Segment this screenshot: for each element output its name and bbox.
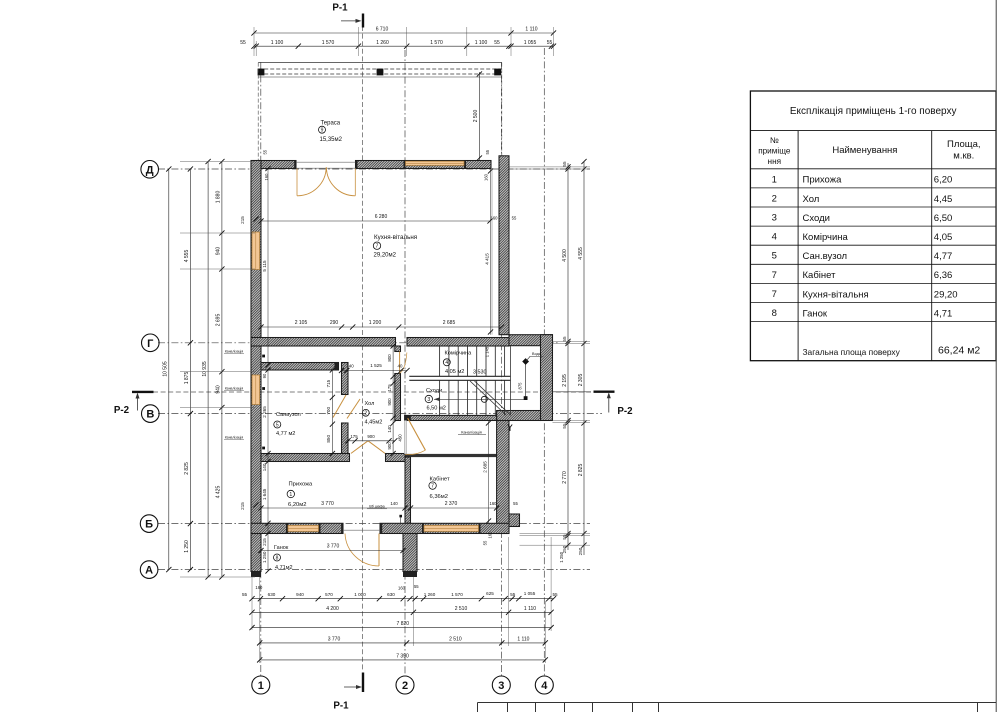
svg-text:1 250: 1 250 <box>559 551 564 563</box>
svg-text:160: 160 <box>484 173 489 181</box>
south wall window jambs <box>286 523 288 533</box>
svg-text:Вб.шафа: Вб.шафа <box>369 505 384 509</box>
svg-text:140: 140 <box>387 425 392 433</box>
svg-text:Хол: Хол <box>803 194 820 205</box>
svg-text:Каналізація: Каналізація <box>225 436 243 440</box>
svg-text:175: 175 <box>387 384 392 392</box>
corridor vertical chain <box>392 346 394 454</box>
svg-text:2 510: 2 510 <box>455 606 468 612</box>
bathroom door leaves <box>333 395 346 418</box>
west wall window 2 <box>252 375 260 405</box>
grid axis row V (y=413.6) <box>158 413 602 415</box>
svg-text:Б: Б <box>145 519 153 531</box>
svg-text:1 880: 1 880 <box>216 191 222 204</box>
svg-text:4 200: 4 200 <box>326 606 339 612</box>
svg-text:6,50 м2: 6,50 м2 <box>427 406 446 412</box>
svg-text:940: 940 <box>296 592 304 597</box>
kitchen lower dimension row <box>261 326 502 328</box>
section marker P-2 left <box>132 391 154 393</box>
left inner dims lower <box>267 370 269 571</box>
svg-text:2 770: 2 770 <box>562 471 568 484</box>
grid axis row D (y=169) <box>158 168 590 170</box>
bottom chain 7820 <box>252 627 551 629</box>
svg-text:175: 175 <box>350 434 358 439</box>
svg-text:570: 570 <box>325 592 333 597</box>
bathroom interior vertical chain <box>331 370 333 454</box>
right chain inner <box>567 163 569 550</box>
cabinet north thin wall <box>405 454 497 457</box>
svg-text:4,77: 4,77 <box>934 251 953 262</box>
column bubble 1 <box>252 676 270 694</box>
svg-text:6 710: 6 710 <box>376 27 389 33</box>
porch west wall end cap <box>251 572 261 578</box>
south wall window 2 <box>424 525 479 531</box>
svg-text:1 200: 1 200 <box>369 320 382 326</box>
svg-text:1: 1 <box>258 680 264 692</box>
svg-text:66,24 м2: 66,24 м2 <box>938 345 980 357</box>
section marker P-1 top <box>362 14 364 28</box>
svg-text:1 100: 1 100 <box>271 40 284 46</box>
corridor west wall upper <box>395 346 401 352</box>
terrace right dashed edge <box>501 63 503 161</box>
north wall window jamb caps <box>404 161 406 169</box>
svg-text:55: 55 <box>510 592 516 597</box>
cabinet east wall pilaster <box>509 514 520 527</box>
svg-text:940: 940 <box>216 385 222 394</box>
svg-text:Каналізація: Каналізація <box>225 350 243 354</box>
svg-text:2: 2 <box>402 680 408 692</box>
row bubble D <box>141 161 159 179</box>
svg-text:Сходи: Сходи <box>426 388 442 394</box>
bottom chain 7390 <box>260 659 546 661</box>
svg-text:4 415: 4 415 <box>484 253 489 265</box>
grid axis column 3 <box>500 62 502 676</box>
svg-text:Прихожа: Прихожа <box>803 175 843 186</box>
stair bay south wall <box>497 411 541 421</box>
left chain detailed <box>221 162 223 578</box>
cabinet east interior dim 2685 <box>488 421 490 524</box>
svg-text:Каналізація: Каналізація <box>225 387 243 391</box>
svg-text:625: 625 <box>486 591 494 596</box>
svg-text:3 770: 3 770 <box>321 501 334 507</box>
kitchen east interior dim 4415 <box>490 169 492 335</box>
grid axis column 4 <box>543 48 545 676</box>
svg-text:3 770: 3 770 <box>327 544 340 550</box>
svg-text:2 695: 2 695 <box>216 314 222 327</box>
row bubble A <box>140 561 158 579</box>
svg-text:450: 450 <box>398 434 403 442</box>
svg-text:7: 7 <box>772 270 777 281</box>
explication table outer border <box>750 91 996 361</box>
cabinet east wall <box>497 421 509 534</box>
svg-text:900: 900 <box>387 398 392 406</box>
svg-text:2 105: 2 105 <box>295 320 308 326</box>
hall south wall west <box>261 454 350 462</box>
svg-text:8: 8 <box>276 555 279 561</box>
svg-text:1: 1 <box>772 174 777 185</box>
svg-text:1 570: 1 570 <box>451 592 463 597</box>
north wall segment east <box>356 161 492 169</box>
stair break line <box>470 381 506 415</box>
svg-text:Кухня-вітальня: Кухня-вітальня <box>374 234 417 241</box>
svg-text:Р-2: Р-2 <box>617 406 633 417</box>
stair treads lower flight <box>439 380 441 415</box>
svg-text:4: 4 <box>445 360 448 366</box>
svg-text:м.кв.: м.кв. <box>953 151 974 162</box>
right chain outer <box>583 162 585 556</box>
svg-text:55: 55 <box>485 149 490 154</box>
grid axis row B (y=523.6) <box>158 523 590 525</box>
hall door dimension <box>348 440 395 442</box>
svg-text:90: 90 <box>262 373 267 378</box>
left chain 10935 <box>207 162 209 578</box>
stairs south wall <box>405 415 497 420</box>
row bubble G <box>142 334 160 352</box>
svg-text:900: 900 <box>387 442 392 450</box>
south wall west part <box>251 523 343 533</box>
terrace depth dimension 2500 <box>478 72 480 161</box>
kitchen width dimension 6280 <box>261 220 490 222</box>
hall south wall east <box>386 454 406 462</box>
svg-text:Ганок: Ганок <box>274 545 289 551</box>
svg-text:55: 55 <box>562 534 567 540</box>
svg-text:630: 630 <box>387 592 395 597</box>
svg-text:215: 215 <box>240 502 245 510</box>
svg-text:15,35м2: 15,35м2 <box>320 137 343 143</box>
svg-text:1 100: 1 100 <box>475 40 488 46</box>
svg-text:1 645: 1 645 <box>262 488 267 500</box>
grid axis column 1 <box>260 62 262 676</box>
svg-text:700: 700 <box>326 407 331 415</box>
svg-text:55: 55 <box>240 40 246 46</box>
svg-text:3: 3 <box>427 397 430 403</box>
svg-text:приміще: приміще <box>758 147 791 156</box>
section marker P-2 right <box>553 391 592 393</box>
svg-text:55: 55 <box>562 336 567 342</box>
svg-text:160: 160 <box>264 173 269 181</box>
explication table header <box>797 131 799 361</box>
svg-text:2 370: 2 370 <box>445 501 458 507</box>
svg-text:140: 140 <box>262 463 267 471</box>
title block top edge <box>478 702 997 704</box>
stair landing rail double line <box>409 375 510 377</box>
left chain by rows <box>189 169 191 570</box>
svg-text:1 055: 1 055 <box>524 40 537 46</box>
section line P-1 vertical <box>361 26 363 672</box>
svg-text:4,05 м2: 4,05 м2 <box>445 369 464 375</box>
svg-text:2 510: 2 510 <box>449 636 462 642</box>
svg-text:1 260: 1 260 <box>376 40 389 46</box>
svg-text:160: 160 <box>491 216 499 221</box>
svg-text:875: 875 <box>518 382 523 390</box>
svg-text:2 195: 2 195 <box>562 374 568 387</box>
svg-text:1 110: 1 110 <box>525 27 537 33</box>
svg-text:4 500: 4 500 <box>562 249 568 262</box>
svg-text:2 305: 2 305 <box>578 374 584 387</box>
svg-text:2: 2 <box>772 193 777 204</box>
porch east wall <box>403 534 417 572</box>
svg-text:55: 55 <box>547 40 553 46</box>
svg-text:4 555: 4 555 <box>184 250 190 263</box>
svg-text:Ганок: Ганок <box>803 308 828 319</box>
svg-text:140: 140 <box>390 501 398 506</box>
east wall inner finish line <box>491 169 493 335</box>
stair direction arrow <box>434 398 526 400</box>
svg-text:55: 55 <box>494 40 500 46</box>
svg-text:1 525: 1 525 <box>370 363 382 368</box>
bottom chain detailed <box>252 598 554 600</box>
svg-text:4: 4 <box>772 232 777 243</box>
svg-text:1 875: 1 875 <box>184 372 190 385</box>
svg-text:Комірчина: Комірчина <box>803 232 849 243</box>
left chain 10505 <box>168 169 170 570</box>
prykhozha dimension line <box>261 507 405 509</box>
svg-text:Тераса: Тераса <box>320 121 340 127</box>
svg-text:Хол: Хол <box>365 401 375 407</box>
svg-text:55: 55 <box>414 584 419 589</box>
svg-text:6,20: 6,20 <box>934 175 953 186</box>
svg-text:5 115: 5 115 <box>262 260 267 272</box>
svg-text:29,20: 29,20 <box>934 289 958 300</box>
svg-text:Сходи: Сходи <box>803 213 830 224</box>
terrace dashed railing lines <box>258 68 502 70</box>
south wall east part <box>380 523 509 533</box>
svg-text:6,36: 6,36 <box>934 270 953 281</box>
svg-text:9: 9 <box>321 128 324 134</box>
top witness lines <box>253 27 255 56</box>
terrace door threshold lines <box>296 161 356 163</box>
svg-text:1 250: 1 250 <box>262 551 267 563</box>
page frame right edge <box>995 0 997 712</box>
terrace post right <box>494 69 501 76</box>
row G wall east part <box>407 338 509 347</box>
svg-text:Кухня-вітальня: Кухня-вітальня <box>803 289 869 300</box>
svg-text:3: 3 <box>498 680 504 692</box>
svg-text:1 570: 1 570 <box>430 40 443 46</box>
svg-text:55: 55 <box>512 216 517 221</box>
svg-text:5: 5 <box>276 422 279 428</box>
svg-text:55: 55 <box>263 149 268 154</box>
column bubble 3 <box>492 676 510 694</box>
svg-text:2 825: 2 825 <box>578 464 584 477</box>
svg-text:Прихожа: Прихожа <box>289 482 313 488</box>
svg-text:940: 940 <box>216 247 222 256</box>
svg-text:55: 55 <box>513 501 518 506</box>
svg-text:900: 900 <box>367 434 375 439</box>
svg-text:55: 55 <box>552 592 558 597</box>
svg-text:55: 55 <box>483 540 488 545</box>
svg-text:2 825: 2 825 <box>184 462 190 475</box>
svg-text:Р-1: Р-1 <box>333 701 349 712</box>
svg-text:4,45м2: 4,45м2 <box>365 420 383 426</box>
top dimension chain detailed <box>254 45 554 47</box>
water label <box>526 357 530 362</box>
svg-text:6 280: 6 280 <box>375 214 388 220</box>
row bubble V <box>142 405 160 423</box>
svg-text:55: 55 <box>242 592 248 597</box>
porch west wall <box>251 534 261 572</box>
svg-text:160: 160 <box>255 585 263 590</box>
porch east wall end cap <box>403 572 417 578</box>
top dimension 6710 and 1110 <box>254 32 554 34</box>
svg-text:7: 7 <box>772 289 777 300</box>
left witness lines <box>180 161 255 163</box>
svg-text:1 260: 1 260 <box>424 592 436 597</box>
bathroom top dimension row <box>342 370 408 372</box>
bathroom north wall <box>261 363 339 371</box>
svg-text:55: 55 <box>562 161 567 167</box>
terrace door jamb caps <box>294 161 296 169</box>
east wall of main volume <box>499 156 509 335</box>
cabinet door leaf and arc <box>408 418 426 450</box>
svg-text:1 110: 1 110 <box>524 606 536 612</box>
svg-text:215: 215 <box>240 216 245 224</box>
svg-text:1 145: 1 145 <box>485 346 490 357</box>
bottom witness lines <box>251 577 253 630</box>
sewer riser dots on west wall <box>262 355 265 358</box>
svg-text:4,05: 4,05 <box>934 232 953 243</box>
svg-text:1: 1 <box>289 492 292 498</box>
svg-text:1 055: 1 055 <box>524 591 536 596</box>
svg-text:3 770: 3 770 <box>328 636 341 642</box>
svg-text:7: 7 <box>376 244 379 250</box>
svg-text:7 390: 7 390 <box>396 653 409 659</box>
svg-text:1 570: 1 570 <box>322 40 335 46</box>
svg-text:Р-2: Р-2 <box>114 405 130 416</box>
entry hall door leaves <box>351 441 368 454</box>
svg-text:2 265: 2 265 <box>262 406 267 418</box>
hall west wall lower <box>342 423 349 455</box>
cabinet dimension line <box>411 507 497 509</box>
row G wall west part <box>251 338 396 347</box>
svg-text:4,71м2: 4,71м2 <box>275 565 293 571</box>
corridor west wall lower <box>395 374 401 421</box>
svg-text:8: 8 <box>772 308 777 319</box>
bottom chain 4200-2510-1110 <box>252 611 551 613</box>
svg-text:10 505: 10 505 <box>163 361 169 377</box>
svg-text:Д: Д <box>146 164 154 176</box>
pantry door leaf and arc <box>399 352 401 374</box>
grid axis row A (y=569.6) <box>158 569 590 571</box>
grid axis row G (y=342.8) <box>158 342 560 344</box>
svg-text:4,45: 4,45 <box>934 194 953 205</box>
svg-text:2 685: 2 685 <box>443 320 456 326</box>
cabinet doorway jamb <box>404 421 406 454</box>
porch dimension line <box>261 550 403 552</box>
svg-text:290: 290 <box>330 320 339 326</box>
svg-text:1 000: 1 000 <box>354 592 366 597</box>
hall west wall upper <box>342 363 349 395</box>
svg-text:1 110: 1 110 <box>517 636 529 642</box>
svg-text:4,71: 4,71 <box>934 308 953 319</box>
svg-text:250: 250 <box>578 547 583 555</box>
svg-text:Загальна площа поверху: Загальна площа поверху <box>803 347 901 357</box>
svg-text:2 500: 2 500 <box>473 110 479 123</box>
svg-text:6,50: 6,50 <box>934 213 953 224</box>
section marker P-1 bottom <box>362 673 364 693</box>
svg-text:Каналізація: Каналізація <box>461 430 482 434</box>
grid axis column 2 <box>404 50 406 676</box>
svg-text:4 425: 4 425 <box>216 486 222 499</box>
svg-text:4 555: 4 555 <box>578 247 584 260</box>
svg-text:Г: Г <box>147 338 154 350</box>
svg-text:Експлікація приміщень 1-го пов: Експлікація приміщень 1-го поверху <box>790 106 957 117</box>
stair bay east wall <box>541 335 553 421</box>
svg-text:160: 160 <box>490 501 498 506</box>
svg-text:2: 2 <box>364 411 367 417</box>
svg-text:Р-1: Р-1 <box>332 3 348 14</box>
north wall window <box>406 161 465 165</box>
svg-text:3: 3 <box>772 213 777 224</box>
left inner chain 5115 <box>267 169 269 366</box>
svg-text:Санвузол: Санвузол <box>276 412 301 418</box>
west wall <box>251 161 261 534</box>
electric point symbol <box>399 515 402 518</box>
svg-text:40: 40 <box>398 364 403 369</box>
svg-text:А: А <box>145 565 153 577</box>
column bubble 4 <box>535 676 553 694</box>
svg-text:7 820: 7 820 <box>397 621 410 627</box>
svg-text:29,20м2: 29,20м2 <box>374 252 397 258</box>
svg-text:Сан.вузол: Сан.вузол <box>803 251 848 262</box>
svg-text:3,530: 3,530 <box>473 369 487 375</box>
terrace double door arcs <box>297 167 355 196</box>
svg-text:Найменування: Найменування <box>832 145 897 156</box>
terrace edge top line <box>258 62 502 64</box>
svg-text:160: 160 <box>398 586 406 591</box>
svg-text:4: 4 <box>541 680 548 692</box>
svg-text:215: 215 <box>262 538 267 546</box>
svg-text:ння: ння <box>768 157 781 166</box>
terrace left dashed edge <box>257 63 259 161</box>
svg-text:В: В <box>146 409 154 421</box>
svg-text:1 250: 1 250 <box>184 540 190 553</box>
svg-text:Площа,: Площа, <box>947 139 981 150</box>
svg-text:Кабінет: Кабінет <box>803 270 837 281</box>
svg-text:6,20м2: 6,20м2 <box>288 502 307 508</box>
svg-text:2 685: 2 685 <box>482 461 487 473</box>
entrance door threshold and jambs <box>343 529 380 531</box>
svg-text:160: 160 <box>488 531 493 539</box>
svg-text:7: 7 <box>431 483 434 489</box>
right witness lines <box>509 166 590 168</box>
stair treads upper flight <box>439 346 441 376</box>
title block dividers <box>477 703 479 712</box>
svg-text:№: № <box>770 136 779 145</box>
column bubble 2 <box>396 676 414 694</box>
svg-text:5: 5 <box>772 251 777 262</box>
entrance door leaf and arc <box>378 534 380 567</box>
svg-text:715: 715 <box>326 379 331 387</box>
stair right boundary <box>510 346 512 415</box>
south wall window 1 <box>288 525 319 531</box>
svg-text:850: 850 <box>326 435 331 443</box>
terrace post middle <box>377 69 384 76</box>
svg-text:4,77 м2: 4,77 м2 <box>276 431 295 437</box>
svg-text:140: 140 <box>346 364 354 369</box>
svg-text:10 935: 10 935 <box>202 361 208 377</box>
water riser line <box>525 362 527 400</box>
sewer riser symbol <box>508 425 512 432</box>
svg-text:630: 630 <box>268 592 276 597</box>
cabinet west wall <box>405 457 411 523</box>
svg-text:55: 55 <box>562 423 567 429</box>
svg-text:800: 800 <box>387 354 392 362</box>
stair bay north wall <box>509 335 553 346</box>
section line P-2 horizontal <box>153 391 591 393</box>
row bubble B <box>140 515 158 533</box>
west wall window 1 <box>252 232 260 270</box>
